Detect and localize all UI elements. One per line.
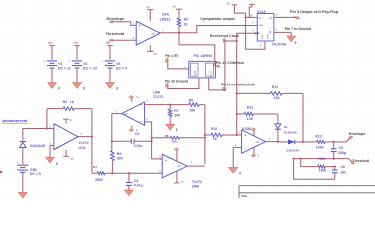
op-amp U9A LM311 comparator (133, 12, 171, 45)
wire comparator output to U12A pin 2 D input (179, 26, 257, 33)
svg-text:DC = 12: DC = 12 (58, 66, 71, 70)
resistor R9 390 (170, 99, 205, 113)
svg-text:−: − (140, 120, 142, 124)
wire U8B output to vertical (187, 165, 205, 167)
wire node X to U8B pin 6 (111, 172, 162, 174)
capacitor C5 330p (331, 142, 346, 159)
capacitor C3 0.01u (112, 132, 152, 148)
power -Vs to comparator V- (147, 45, 158, 56)
diode D1 D1N4148 (275, 114, 297, 142)
svg-text:LM311: LM311 (160, 17, 171, 21)
power V- stub of U8B (174, 171, 185, 183)
svg-text:C12: C12 (209, 70, 212, 75)
svg-text:D1: D1 (284, 125, 288, 129)
svg-text:C4: C4 (134, 179, 139, 183)
resistor R6 390 (111, 151, 123, 174)
svg-text:TL072: TL072 (192, 180, 202, 184)
svg-text:V5: V5 (116, 62, 120, 66)
svg-text:Pin 12 COMPout: Pin 12 COMPout (216, 61, 245, 65)
svg-text:330p: 330p (338, 151, 346, 155)
resistor R4 3900 (92, 137, 113, 182)
power 5V second symbol to flip-flop (249, 4, 254, 17)
svg-text:Q: Q (270, 17, 272, 20)
svg-text:Threshold: Threshold (352, 159, 368, 163)
svg-text:photocurrent: photocurrent (3, 118, 29, 123)
svg-text:+: + (139, 24, 141, 28)
svg-text:V+: V+ (71, 157, 75, 161)
ground U12A pin 7 (274, 27, 311, 45)
svg-text:R14: R14 (318, 157, 324, 161)
op-amp U10B TL072 (235, 127, 271, 153)
svg-text:+: + (140, 103, 142, 107)
svg-text:DC = 5: DC = 5 (116, 66, 127, 70)
svg-text:10k: 10k (274, 96, 280, 100)
svg-text:C6: C6 (340, 165, 345, 169)
svg-text:Envelope: Envelope (349, 132, 365, 136)
svg-text:CLK: CLK (258, 25, 263, 27)
node label Recovered Clock (210, 34, 239, 43)
svg-text:RA5: RA5 (194, 70, 197, 75)
svg-text:V3: V3 (83, 62, 87, 66)
svg-text:Pin 20 Ground: Pin 20 Ground (165, 79, 188, 83)
svg-text:R12: R12 (272, 85, 278, 89)
svg-text:U12A: U12A (257, 10, 266, 14)
wire PIC pin 11 recovered clock (209, 78, 255, 92)
resistor R8 390 (152, 134, 205, 144)
svg-text:Pin 5 Output of D Flip-Flop: Pin 5 Output of D Flip-Flop (290, 10, 339, 14)
svg-text:Recovered Clock: Recovered Clock (210, 34, 239, 38)
svg-text:U9A: U9A (162, 12, 169, 16)
resistor R3 2k pull-up to 5V (173, 5, 189, 33)
svg-text:R6: R6 (117, 152, 122, 156)
wire threshold node to Threshold output (293, 157, 369, 166)
svg-text:PIC 16F690: PIC 16F690 (194, 54, 213, 58)
resistor R14 100k (301, 159, 336, 173)
wire R9 to U8B output vertical (204, 105, 206, 164)
capacitor C6 10n (332, 165, 346, 179)
svg-text:V+: V+ (136, 95, 140, 99)
svg-text:V4: V4 (58, 62, 62, 66)
svg-text:R8: R8 (165, 134, 169, 138)
svg-text:GND: GND (268, 33, 270, 38)
svg-text:C3: C3 (135, 132, 140, 136)
op-amp U8A TL072 (116, 91, 164, 126)
svg-text:0.01u: 0.01u (134, 144, 143, 148)
svg-text:D1N4148: D1N4148 (284, 130, 297, 134)
wire U8A pin 2 down to U8B pin 5 node (145, 122, 153, 159)
svg-text:−: − (139, 39, 141, 43)
svg-text:1k: 1k (213, 137, 217, 141)
power V- stub of U8A (128, 125, 138, 132)
svg-text:0: 0 (116, 87, 118, 91)
svg-text:U7A: U7A (79, 146, 86, 150)
svg-text:R13: R13 (315, 135, 321, 139)
svg-text:R7: R7 (174, 109, 179, 113)
svg-text:R11: R11 (247, 105, 253, 109)
IC PIC 16F690 (189, 54, 216, 78)
ground U7A pin 3 (46, 146, 59, 167)
svg-text:−: − (165, 173, 167, 177)
wire Pin 1 5V to PIC (164, 54, 188, 69)
svg-text:-Vs: -Vs (153, 52, 158, 56)
svg-text:100k: 100k (316, 145, 324, 149)
svg-text:0: 0 (176, 128, 178, 132)
svg-text:R10: R10 (211, 127, 217, 131)
svg-text:0: 0 (56, 162, 58, 166)
wire recovered clock vertical to filter (236, 41, 238, 136)
svg-text:R3: R3 (184, 17, 189, 21)
wire Pin 20 Ground of PIC (164, 78, 199, 89)
resistor R10 1k (205, 127, 242, 141)
svg-text:390: 390 (189, 109, 195, 113)
svg-text:Vs: Vs (146, 5, 150, 9)
resistor R12 10k (237, 85, 303, 100)
resistor R13 100k to Envelope output (303, 132, 365, 149)
svg-text:−: − (244, 147, 246, 151)
wire 5V to U12A pin 1 CLR (246, 14, 258, 18)
svg-text:R9: R9 (189, 99, 194, 103)
svg-text:0: 0 (58, 87, 60, 91)
svg-text:2k: 2k (184, 23, 188, 27)
svg-text:74LS74A: 74LS74A (272, 42, 287, 46)
svg-text:390: 390 (174, 113, 180, 117)
svg-text:D1N4148: D1N4148 (30, 144, 45, 148)
svg-text:0: 0 (83, 87, 85, 91)
power V+ stub of U7A (63, 150, 74, 162)
wire comparator output to R3 node (160, 32, 180, 34)
capacitor C4 0.01u to ground (125, 173, 143, 196)
node label Comparator output (200, 17, 235, 22)
svg-text:10n: 10n (340, 170, 346, 174)
wire U10B output (265, 141, 279, 143)
svg-text:U8B: U8B (192, 184, 199, 188)
svg-text:C5: C5 (339, 146, 344, 150)
svg-text:+: + (165, 158, 167, 162)
svg-text:Threshold: Threshold (106, 31, 125, 36)
power V+ stub of U8A (128, 95, 140, 102)
power 5V to U12A PRE pin 4 (227, 1, 265, 49)
svg-text:100k: 100k (319, 169, 327, 173)
power V- stub of U7A (63, 118, 72, 124)
power Vs to comparator V+ (146, 5, 154, 21)
svg-text:0: 0 (295, 41, 297, 45)
svg-text:Pin 1 5V: Pin 1 5V (165, 54, 179, 58)
power V+ stub of U10B (251, 128, 256, 136)
svg-text:Comparator output.: Comparator output. (200, 17, 235, 21)
battery V4 with Vs rail and ground (44, 41, 71, 90)
svg-text:0: 0 (239, 171, 241, 175)
svg-text:-Vs: -Vs (73, 41, 78, 45)
op-amp U7A TL072 (49, 124, 88, 150)
resistor R11 10k feedback (237, 105, 278, 120)
wire U7A output (78, 136, 93, 138)
wire stub at left edge (0, 171, 2, 174)
svg-text:TL072: TL072 (79, 141, 89, 145)
wire comparator output down to PIC pin 12 COMPout (179, 33, 245, 69)
svg-text:R4: R4 (93, 165, 97, 169)
svg-text:Envelope: Envelope (107, 16, 126, 21)
svg-text:Pin 11 recovered clock: Pin 11 recovered clock (221, 82, 255, 86)
svg-text:Pin 7 to Ground: Pin 7 to Ground (285, 27, 311, 31)
svg-text:+: + (244, 134, 246, 138)
svg-text:390: 390 (172, 140, 177, 144)
battery V3 with -Vs rail and ground (69, 41, 97, 90)
wire U12A pin 5 Q output (274, 10, 339, 20)
svg-text:PRE: PRE (262, 34, 264, 39)
svg-text:DC = 5: DC = 5 (30, 172, 41, 176)
svg-text:1k: 1k (70, 100, 74, 104)
ground U10B pin 2 (229, 147, 242, 175)
svg-text:+: + (56, 145, 58, 149)
svg-text:−: − (57, 128, 59, 132)
diode D2 D1N4148 envelope detector (278, 140, 304, 153)
svg-text:U10B: U10B (242, 127, 251, 131)
node label photocurrent (3, 118, 29, 123)
svg-text:Title: Title (241, 194, 247, 198)
title block frame (239, 186, 375, 198)
svg-text:0.01u: 0.01u (134, 184, 143, 188)
svg-text:390: 390 (117, 156, 123, 160)
svg-text:3900: 3900 (95, 178, 103, 182)
resistor R2 feedback of U7A (47, 100, 92, 136)
svg-text:R2: R2 (63, 100, 68, 104)
svg-text:D1N4148: D1N4148 (286, 149, 299, 153)
svg-text:5V: 5V (227, 1, 231, 5)
svg-text:TL072: TL072 (153, 95, 163, 99)
svg-text:V-: V- (70, 118, 73, 122)
wire U8A output down to R6 and C3 (111, 114, 122, 151)
wire C6 return loop (294, 159, 335, 180)
wire R12 down to envelope detector node (302, 93, 304, 141)
D flip-flop U12A 74LS74A (252, 10, 287, 48)
svg-text:Vs: Vs (48, 41, 52, 45)
wire recovered clock to U12A pin 3 CLK (225, 32, 257, 90)
node Envelope input to comparator (107, 16, 137, 26)
power V+ stub of U8B (173, 148, 178, 162)
diode D3 D1N4148 photodiode (20, 129, 45, 150)
svg-text:DC = -12: DC = -12 (83, 66, 97, 70)
wire to U8B pin 5 (152, 158, 163, 160)
svg-text:U8A: U8A (153, 91, 160, 95)
battery V5 with 5V rail and ground (102, 41, 127, 90)
node Threshold input to comparator (106, 31, 137, 42)
battery V2B DC 5 bias (17, 150, 41, 199)
svg-text:10k: 10k (247, 117, 253, 121)
svg-text:5V: 5V (173, 5, 177, 9)
svg-text:V+: V+ (181, 179, 185, 183)
power V- stub of U10B (251, 147, 260, 157)
resistor R7 390 to ground (145, 104, 180, 133)
svg-text:V-: V- (257, 154, 260, 158)
wire photocurrent to U7A pin 2 (23, 127, 54, 129)
op-amp U8B TL072 (159, 154, 202, 188)
